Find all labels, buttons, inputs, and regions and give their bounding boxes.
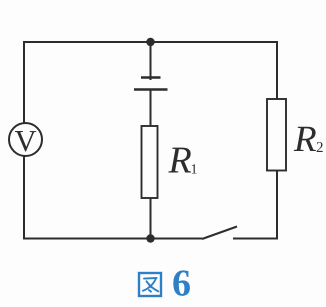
svg-text:6: 6 <box>172 262 191 304</box>
svg-text:V: V <box>14 124 36 158</box>
svg-text:R: R <box>293 119 317 160</box>
svg-text:1: 1 <box>190 162 197 177</box>
svg-text:2: 2 <box>316 140 324 156</box>
svg-text:R: R <box>167 139 191 181</box>
